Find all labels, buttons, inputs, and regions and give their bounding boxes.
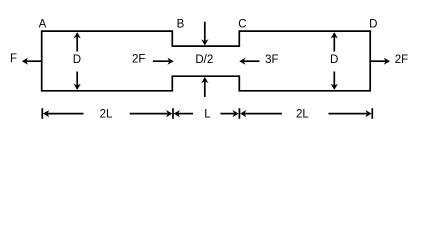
- extension tick at A: [41, 108, 43, 119]
- node label D: [369, 18, 377, 30]
- svg-text:D: D: [73, 54, 81, 66]
- svg-text:C: C: [238, 18, 246, 30]
- force arrow 2F (pointing right at plane B): [132, 54, 174, 66]
- force arrow F (left, pointing left): [10, 53, 42, 65]
- svg-text:A: A: [39, 18, 47, 30]
- svg-text:L: L: [204, 108, 211, 120]
- diameter dimension D (right section): [330, 32, 338, 90]
- dimension pointer D/2 top (down arrow): [201, 22, 208, 46]
- extension tick at B: [172, 108, 174, 119]
- node label A: [39, 18, 47, 30]
- svg-text:D: D: [369, 18, 377, 30]
- extension tick at C: [238, 108, 240, 119]
- dimension 2L (right span): [240, 108, 372, 120]
- dimension pointer D/2 bottom (up arrow): [201, 77, 208, 97]
- stepped bar outline: [42, 31, 371, 91]
- node label C: [238, 18, 246, 30]
- svg-text:D/2: D/2: [195, 54, 213, 66]
- svg-text:2F: 2F: [395, 54, 408, 66]
- svg-text:B: B: [177, 18, 185, 30]
- extension tick at D: [371, 108, 373, 119]
- svg-text:F: F: [10, 53, 17, 65]
- svg-text:2L: 2L: [100, 108, 113, 120]
- dimension 2L (left span): [43, 108, 172, 120]
- force arrow 3F (pointing left at plane C): [239, 54, 278, 66]
- dimension L (middle span): [174, 108, 239, 120]
- force arrow 2F (right, pointing right): [370, 54, 408, 66]
- label D/2: [195, 54, 213, 66]
- svg-text:2F: 2F: [132, 54, 145, 66]
- node label B: [177, 18, 185, 30]
- svg-text:2L: 2L: [296, 108, 309, 120]
- diameter dimension D (left section): [73, 32, 81, 90]
- svg-text:3F: 3F: [265, 54, 278, 66]
- svg-text:D: D: [330, 54, 338, 66]
